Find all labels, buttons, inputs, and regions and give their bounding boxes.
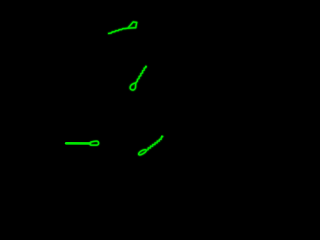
worm W4 head loop [139,150,147,155]
worm W2 halo [130,66,146,90]
worm W4 tail tip [161,135,163,137]
worm W4 tail [146,137,162,151]
worm W4 halo [139,137,163,155]
worm W1 tail [109,28,128,33]
worm W2 tail [136,66,146,82]
worm W2 head loop [130,83,136,90]
worm W3 body bar [66,142,90,145]
worm W2 tail tip [145,66,147,68]
worm W1 halo [109,22,137,34]
worm W3 head loop [90,141,99,145]
worm W3 halo [66,142,90,145]
worm W1 head loop [128,22,137,28]
